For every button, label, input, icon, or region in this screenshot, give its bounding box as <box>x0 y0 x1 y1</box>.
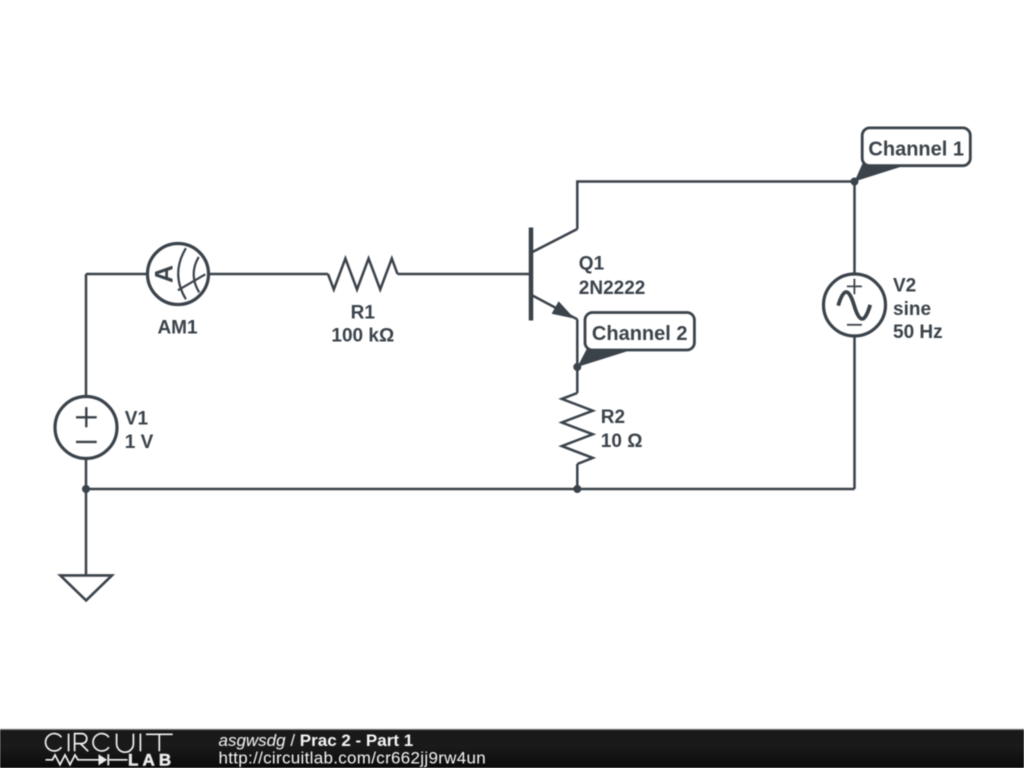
node: Channel 1 probe junction <box>851 178 859 186</box>
wire: ground rail <box>86 488 855 491</box>
footer bar <box>0 729 1024 768</box>
resistor R2 zigzag (vertical) <box>562 393 593 464</box>
Channel 1 callout tail <box>855 164 906 182</box>
transistor Q1 base bar <box>529 228 534 321</box>
Channel 2 callout box <box>585 313 694 351</box>
source V2 plus sign <box>847 279 862 295</box>
source V1 plus sign <box>76 407 97 427</box>
svg-text:100 kΩ: 100 kΩ <box>331 325 394 346</box>
svg-text:http://circuitlab.com/cr662jj9: http://circuitlab.com/cr662jj9rw4un <box>219 748 487 767</box>
ammeter AM1 scale arc 2 <box>194 257 200 293</box>
svg-text:sine: sine <box>893 299 931 320</box>
wire: node down to ground symbol <box>85 489 88 575</box>
footer bar top edge highlight <box>0 728 1024 729</box>
ammeter AM1 scale arc 1 <box>178 248 186 299</box>
ground symbol triangle <box>60 575 112 600</box>
source V1 minus sign <box>76 441 97 443</box>
node: R2 / ground rail junction <box>573 485 581 493</box>
Channel 2 callout tail <box>577 349 628 368</box>
wire: left column top corner to ammeter <box>86 273 148 276</box>
source V2 minus sign <box>847 324 862 326</box>
Channel 1 callout box <box>862 128 970 166</box>
source V2 circle <box>824 274 886 336</box>
wire: emitter down to node <box>576 319 579 393</box>
ammeter AM1 circle <box>148 244 209 305</box>
svg-text:50 Hz: 50 Hz <box>893 322 943 343</box>
svg-text:Channel 2: Channel 2 <box>592 323 688 345</box>
svg-text:10 Ω: 10 Ω <box>601 431 643 452</box>
ammeter AM1 needle <box>178 274 205 290</box>
CircuitLab logo resistor-diode glyph <box>46 754 128 765</box>
CircuitLab logo word CIRCUIT <box>46 734 173 753</box>
wire: collector up and across to V2 branch <box>577 182 854 230</box>
svg-text:2N2222: 2N2222 <box>579 278 646 299</box>
svg-text:V1: V1 <box>125 409 149 430</box>
transistor Q1 emitter slant <box>532 295 578 319</box>
svg-text:R2: R2 <box>601 407 625 428</box>
transistor Q1 collector slant <box>532 229 578 253</box>
wire: left column vertical down to V1 <box>85 274 88 397</box>
resistor R1 zigzag <box>328 259 398 290</box>
wire: V1 bottom to ground rail <box>85 458 88 489</box>
wire: V2 top to Channel 1 node <box>853 182 856 275</box>
wire: R2 to ground rail <box>576 464 579 489</box>
wire: R1 to Q1 base <box>398 273 530 276</box>
svg-text:R1: R1 <box>351 302 376 323</box>
wire: ammeter to R1 <box>209 273 329 276</box>
wire: right branch vertical <box>853 336 856 490</box>
node: Channel 2 probe junction <box>573 363 581 371</box>
svg-text:A: A <box>151 265 179 283</box>
transistor Q1 emitter arrow <box>552 301 575 318</box>
svg-text:Q1: Q1 <box>579 254 605 275</box>
svg-text:LAB: LAB <box>128 751 175 768</box>
svg-text:AM1: AM1 <box>157 317 198 338</box>
node: V1 / ground rail junction <box>82 485 90 493</box>
svg-text:V2: V2 <box>893 276 916 297</box>
svg-text:Channel 1: Channel 1 <box>868 138 964 160</box>
source V1 circle <box>55 397 117 459</box>
source V2 sine wave <box>838 292 870 319</box>
svg-text:1 V: 1 V <box>125 432 154 453</box>
CircuitLab logo diode triangle <box>99 754 108 765</box>
